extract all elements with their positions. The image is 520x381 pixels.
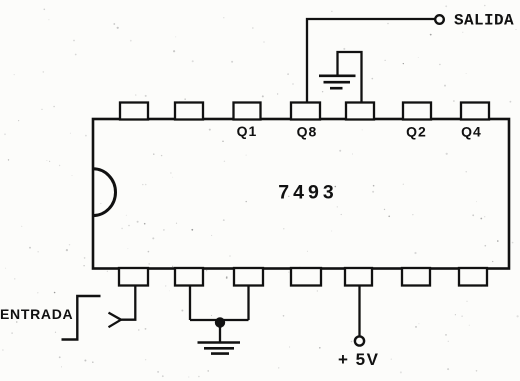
svg-text:Q4: Q4 [461,124,482,140]
wire ENTRADA to pin 1 [121,285,135,320]
pin 13 top stub 2 [175,103,203,120]
pin 2 bottom stub 2 [175,268,203,286]
terminal +5V [355,336,364,345]
pin 10 top stub 5 [346,103,374,120]
wire ground net top: pin10 up, left, down [338,52,362,102]
pin 12 top stub 3 (Q1) [234,103,261,120]
pin 4 bottom stub 4 [291,268,321,286]
pin 6 bottom stub 6 [402,268,430,286]
wire SALIDA net: pin11 up and right [307,19,435,102]
svg-text:Q1: Q1 [237,123,258,139]
pin 8 top stub 7 (Q4) [461,103,489,120]
IC U1 body [93,119,509,269]
pin 1 bottom stub 1 (input A) [119,268,148,286]
pin 11 top stub 4 (Q8) [291,103,320,120]
wire +5V: pin 5 bottom down [358,285,360,337]
svg-text:Q8: Q8 [297,124,318,140]
ground symbol top [319,76,356,88]
input step waveform symbol [62,296,101,340]
pin 9 top stub 6 (Q2) [403,103,431,120]
input arrowhead [109,313,122,328]
pin 7 bottom stub 7 [459,268,487,286]
svg-text:Q2: Q2 [406,124,427,140]
junction dot [215,317,225,327]
pin 14 top stub 1 [120,103,148,120]
svg-text:7493: 7493 [278,182,337,204]
IC U1 notch [93,169,116,216]
svg-text:+ 5V: + 5V [338,350,379,369]
wire ground net bottom: pins 2 and 3 joined [190,285,249,342]
svg-text:ENTRADA: ENTRADA [0,306,73,322]
pin 3 bottom stub 3 [234,268,263,286]
ground symbol bottom [198,343,241,354]
pin 5 bottom stub 5 (Vcc) [345,268,372,286]
svg-text:SALIDA: SALIDA [454,12,514,30]
terminal SALIDA [435,15,444,24]
